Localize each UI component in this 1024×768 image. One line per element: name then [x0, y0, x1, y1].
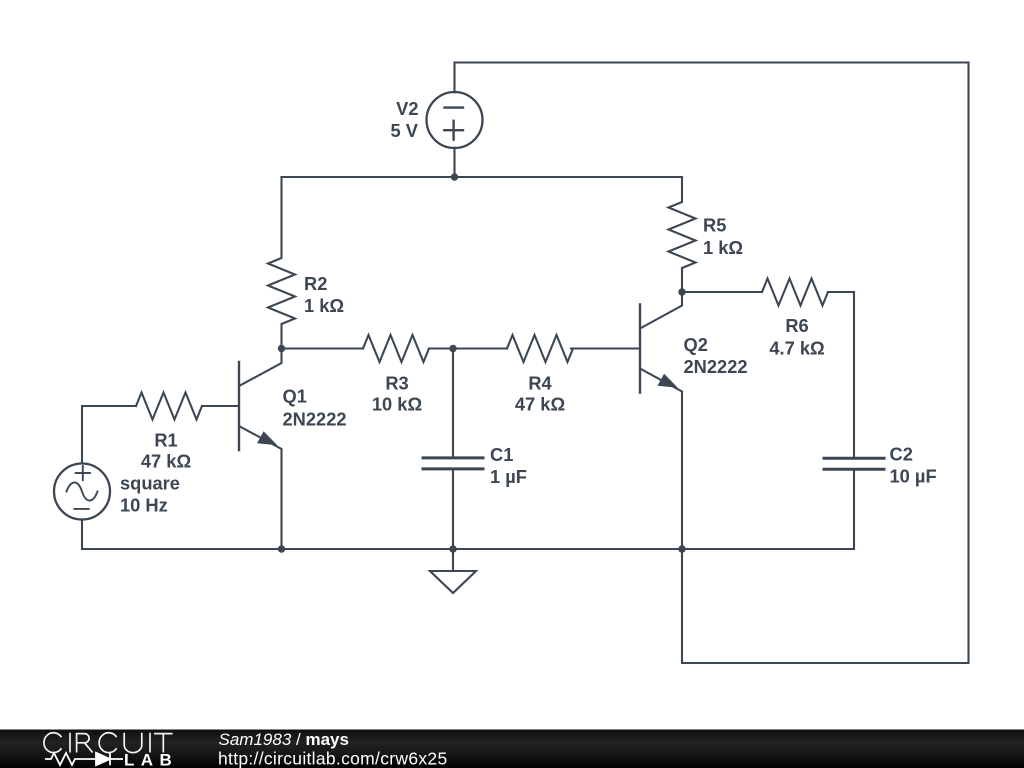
label R6 name [785, 315, 808, 336]
logo resistor-diode squiggle [45, 753, 123, 765]
footer url line [218, 749, 447, 768]
label Q1 value [283, 409, 347, 430]
label Q2 value [684, 356, 748, 377]
label V2 value [391, 120, 419, 141]
resistor R1 [136, 393, 202, 420]
svg-text:R1: R1 [154, 430, 177, 451]
svg-text:http://circuitlab.com/crw6x25: http://circuitlab.com/crw6x25 [218, 749, 447, 768]
node R5 bottom / Q2 collector / R6 [678, 288, 685, 295]
label R3 value [372, 394, 422, 415]
capacitor C1 [423, 349, 483, 550]
label R4 name [528, 373, 552, 394]
svg-text:4.7 kΩ: 4.7 kΩ [769, 338, 824, 359]
resistor R5 [669, 177, 696, 292]
wire feedback loop top/right/bottom [455, 63, 969, 664]
label R1 name [154, 430, 177, 451]
svg-text:R6: R6 [785, 315, 808, 336]
label Q2 name [684, 334, 708, 355]
label R1 value [141, 451, 191, 472]
svg-text:2N2222: 2N2222 [283, 409, 347, 430]
svg-text:1 µF: 1 µF [490, 466, 527, 487]
label Q1 name [283, 386, 307, 407]
svg-text:5 V: 5 V [391, 120, 419, 141]
label R5 value [703, 237, 743, 258]
node C1 bottom / ground rail [449, 545, 456, 552]
label V2 name [396, 98, 418, 119]
svg-text:Q1: Q1 [283, 386, 307, 407]
label R2 value [304, 295, 344, 316]
svg-text:2N2222: 2N2222 [684, 356, 748, 377]
voltage source V2 [427, 63, 483, 178]
resistor R3 [363, 335, 429, 362]
label R5 name [703, 215, 726, 236]
svg-text:R4: R4 [528, 373, 552, 394]
transistor Q1 [239, 349, 282, 550]
footer bar [0, 730, 1024, 768]
node Q2 emitter / ground rail [678, 545, 685, 552]
svg-text:47 kΩ: 47 kΩ [515, 394, 565, 415]
wire R6 to C2 top [828, 292, 854, 457]
capacitor C2 [824, 458, 884, 549]
svg-text:1 kΩ: 1 kΩ [703, 237, 743, 258]
svg-text:R2: R2 [304, 273, 327, 294]
svg-text:C1: C1 [490, 444, 513, 465]
svg-text:C2: C2 [890, 444, 913, 465]
wire base rail y=348 (R2 node to R3) [282, 347, 364, 349]
transistor Q2 [640, 292, 682, 549]
svg-text:10 kΩ: 10 kΩ [372, 394, 422, 415]
wire V1 to R1 [82, 406, 136, 464]
wire R4 to Q2 base [571, 347, 639, 349]
voltage source V1 (square wave) [54, 464, 110, 550]
wire node to R6 [682, 291, 762, 293]
resistor R2 [268, 177, 295, 349]
label C1 name [490, 444, 513, 465]
label R4 value [515, 394, 565, 415]
label R6 value [769, 338, 824, 359]
svg-text:R3: R3 [385, 373, 408, 394]
node R2 bottom / Q1 collector [278, 345, 285, 352]
node at V2 minus / rail [451, 173, 458, 180]
wire ground rail y=549 [82, 548, 854, 550]
logo CIRCUIT wordmark [44, 733, 173, 753]
label R2 name [304, 273, 327, 294]
resistor R6 [762, 279, 828, 306]
svg-text:V2: V2 [396, 98, 418, 119]
svg-text:square: square [120, 473, 180, 494]
label C2 name [890, 444, 913, 465]
node C1 top [449, 345, 456, 352]
svg-text:R5: R5 [703, 215, 726, 236]
svg-text:10 µF: 10 µF [890, 466, 937, 487]
label V1 frequency [120, 495, 168, 516]
label C2 value [890, 466, 937, 487]
logo LAB wordmark [124, 751, 178, 768]
svg-text:LAB: LAB [124, 751, 178, 768]
node Q1 emitter / ground rail [278, 545, 285, 552]
wire VCC rail y=177 [282, 176, 683, 178]
label V1 waveform [120, 473, 180, 494]
svg-text:Sam1983 / mays: Sam1983 / mays [219, 730, 349, 749]
svg-text:Q2: Q2 [684, 334, 708, 355]
wire R3 to R4 through node [429, 347, 507, 349]
resistor R4 [507, 335, 573, 362]
svg-text:47 kΩ: 47 kΩ [141, 451, 191, 472]
ground symbol [430, 549, 476, 593]
label C1 value [490, 466, 527, 487]
svg-text:1 kΩ: 1 kΩ [304, 295, 344, 316]
svg-text:10 Hz: 10 Hz [120, 495, 168, 516]
footer author line [219, 730, 349, 749]
wire Q1 base from R1 [202, 405, 238, 407]
label R3 name [385, 373, 408, 394]
